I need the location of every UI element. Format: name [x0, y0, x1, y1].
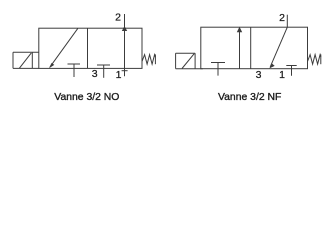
V2 left square flow line 1 to 2	[239, 28, 241, 69]
V2 left square blocked port T (port 3 position)	[211, 62, 225, 64]
V2 right square blocked port T (port 1)	[286, 65, 296, 67]
V1 left square arrowhead	[49, 63, 54, 68]
valve V2 (Vanne 3/2 NF) body outline	[201, 27, 308, 68]
V1 left square flow path diagonal (2 to 3)	[50, 28, 78, 67]
V1 right square blocked port T (port 3)	[97, 64, 110, 66]
valve V1 (Vanne 3/2 NO) body outline	[39, 28, 142, 68]
V2 right square arrowhead	[269, 64, 275, 69]
V2 left square arrowhead up	[237, 27, 242, 33]
V1 port 1 tick below box	[122, 70, 128, 72]
valve V1 center divider	[87, 28, 89, 68]
V2 solenoid actuator box	[176, 52, 196, 54]
svg-text:3: 3	[256, 69, 262, 81]
valve V2 center divider	[250, 27, 252, 68]
V2 return spring	[308, 55, 321, 65]
V1 right square flow line 1 to 2 (port lead)	[124, 14, 126, 76]
V1 return spring	[142, 55, 155, 65]
svg-text:1: 1	[279, 69, 285, 81]
V2 right square flow diagonal (2 to 3)	[270, 27, 287, 67]
svg-text:Vanne 3/2 NO: Vanne 3/2 NO	[54, 92, 119, 103]
svg-text:Vanne 3/2 NF: Vanne 3/2 NF	[218, 92, 281, 103]
svg-text:2: 2	[279, 12, 285, 24]
V2 port 2 lead line	[286, 15, 288, 28]
V2 solenoid diagonal	[182, 54, 194, 69]
V1 solenoid actuator box	[13, 51, 39, 53]
V1 flow arrowhead up at port 2	[122, 26, 127, 31]
svg-text:3: 3	[92, 68, 98, 80]
V1 solenoid diagonal	[19, 53, 31, 68]
svg-text:2: 2	[115, 12, 121, 24]
svg-text:1: 1	[116, 69, 122, 81]
V1 left square blocked port T (port 1 position)	[68, 63, 81, 65]
